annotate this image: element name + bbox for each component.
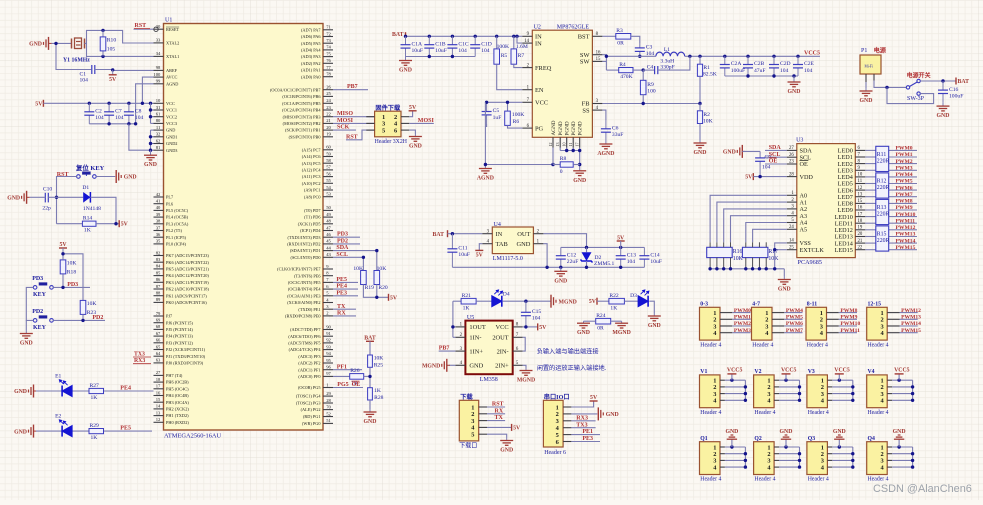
- svg-text:47: 47: [326, 225, 331, 230]
- svg-text:95: 95: [326, 358, 331, 363]
- svg-text:PL4 (OC5B): PL4 (OC5B): [166, 215, 189, 220]
- svg-text:GND: GND: [124, 175, 137, 181]
- U3 left pins: [787, 146, 825, 254]
- svg-text:104: 104: [95, 115, 104, 121]
- svg-text:MOSI: MOSI: [337, 118, 354, 124]
- ground GND (R2): [694, 140, 707, 156]
- wires V1 bus: [720, 379, 747, 402]
- resistor pack R11 220R: [876, 146, 890, 171]
- svg-text:5: 5: [471, 432, 474, 439]
- svg-text:(AD5) PA5: (AD5) PA5: [301, 41, 321, 46]
- power 5V (U4 TAB): [475, 244, 483, 259]
- svg-text:C1B: C1B: [435, 41, 446, 47]
- ground MGND (R24 right): [612, 321, 630, 336]
- svg-text:EXTCLK: EXTCLK: [800, 247, 825, 254]
- svg-text:61: 61: [156, 112, 161, 117]
- svg-text:PWM4: PWM4: [786, 308, 803, 314]
- svg-text:GND: GND: [780, 429, 793, 435]
- net label PG5 (U1 right): [333, 382, 363, 388]
- svg-text:D4: D4: [503, 292, 510, 298]
- power 5V (serial header): [571, 395, 598, 407]
- svg-text:LM358: LM358: [480, 377, 498, 383]
- svg-text:(A15) PC7: (A15) PC7: [302, 147, 322, 152]
- svg-text:LED15: LED15: [835, 247, 853, 254]
- svg-text:2IN+: 2IN+: [495, 363, 509, 370]
- svg-text:VCC3: VCC3: [166, 121, 177, 126]
- connector ISP header 3X2H: [366, 104, 409, 145]
- svg-text:PGND: PGND: [571, 121, 577, 135]
- svg-text:88: 88: [156, 291, 161, 296]
- switch SW-3P power switch: [906, 72, 930, 103]
- wire VCC1-VCC3 bus: [149, 103, 154, 123]
- svg-text:17: 17: [156, 384, 161, 389]
- svg-text:C1D: C1D: [481, 41, 492, 47]
- svg-text:TX3: TX3: [576, 422, 587, 428]
- net labels PWM0-PWM15: [896, 146, 916, 251]
- svg-text:20: 20: [326, 125, 331, 130]
- ground AGND (C6): [597, 141, 614, 157]
- svg-text:闲置的运放正输入端接地.: 闲置的运放正输入端接地.: [537, 364, 607, 372]
- svg-text:(AD3) PA3: (AD3) PA3: [301, 54, 321, 59]
- svg-text:(RXD0/PCIN8) PE0: (RXD0/PCIN8) PE0: [285, 314, 320, 319]
- svg-text:55: 55: [326, 178, 331, 183]
- svg-text:PWM8: PWM8: [896, 199, 913, 205]
- svg-text:(SCL/INT0) PD0: (SCL/INT0) PD0: [291, 255, 321, 260]
- svg-text:OE: OE: [352, 382, 361, 388]
- resistor R4 470K: [606, 62, 645, 80]
- svg-text:104: 104: [80, 78, 89, 84]
- power 5V (reset pullup): [119, 220, 128, 228]
- wire AGND to R8: [484, 163, 555, 166]
- svg-text:27: 27: [156, 370, 161, 375]
- LED E2: [55, 414, 72, 437]
- svg-text:VCC: VCC: [535, 100, 548, 107]
- wire VCC to 5V: [523, 325, 538, 328]
- svg-text:BAT: BAT: [364, 336, 376, 342]
- svg-text:18: 18: [156, 377, 161, 382]
- svg-text:52: 52: [326, 411, 331, 416]
- svg-text:OE: OE: [769, 159, 778, 165]
- wire output caps gnd rail: [725, 74, 798, 77]
- svg-text:R22: R22: [609, 293, 619, 299]
- svg-text:电源: 电源: [874, 47, 887, 55]
- svg-text:PWM0: PWM0: [734, 308, 751, 314]
- svg-text:10K: 10K: [374, 356, 384, 362]
- svg-text:(RXD1/INT2) PD2: (RXD1/INT2) PD2: [287, 242, 320, 247]
- svg-text:RX3: RX3: [576, 415, 588, 421]
- resistor R27 1K: [89, 383, 104, 401]
- capacitor C13 104: [616, 247, 637, 267]
- U2 right pins: [578, 32, 603, 114]
- svg-text:C4: C4: [647, 64, 654, 70]
- power ground MGND (U5 gnd pin): [422, 359, 455, 372]
- svg-text:GND: GND: [833, 429, 846, 435]
- svg-text:49: 49: [326, 212, 331, 217]
- svg-text:15: 15: [596, 57, 601, 62]
- wire E1 row: [36, 390, 154, 392]
- svg-text:PWM8: PWM8: [840, 308, 857, 314]
- U5 left pins: [455, 323, 485, 370]
- svg-text:(ADC2) PF2: (ADC2) PF2: [298, 361, 320, 366]
- svg-text:(A9) PC1: (A9) PC1: [304, 188, 321, 193]
- svg-text:(OC3C/INT5) PE5: (OC3C/INT5) PE5: [288, 280, 321, 285]
- svg-text:AVCC: AVCC: [166, 75, 178, 80]
- net label TX (download): [487, 415, 505, 421]
- LED D4: [492, 290, 510, 307]
- svg-text:OE: OE: [800, 161, 808, 168]
- power 5V (keys pullup): [59, 242, 67, 254]
- power 5V (D3): [589, 298, 597, 306]
- svg-text:SCK: SCK: [337, 125, 350, 131]
- svg-text:29: 29: [326, 391, 331, 396]
- net label RST (reset pin): [134, 23, 150, 29]
- svg-text:22p: 22p: [42, 206, 51, 212]
- svg-text:ATMEGA2560-16AU: ATMEGA2560-16AU: [164, 433, 222, 440]
- svg-text:VCC5: VCC5: [894, 368, 910, 374]
- wire D4 to MGND: [503, 300, 551, 303]
- svg-text:91: 91: [326, 331, 331, 336]
- power VCC5 (V2): [781, 368, 797, 381]
- svg-text:LM1117-5.0: LM1117-5.0: [493, 256, 523, 262]
- svg-text:XTAL2: XTAL2: [166, 41, 179, 46]
- svg-text:44: 44: [326, 245, 331, 250]
- wires Q1 bus: [720, 445, 747, 469]
- net label VCC5: [804, 50, 820, 56]
- svg-text:XTAL1: XTAL1: [166, 54, 179, 59]
- svg-text:GND: GND: [893, 429, 906, 435]
- net label PD2: [92, 315, 103, 321]
- svg-text:10K: 10K: [353, 266, 363, 272]
- wire VSS/EXTCLK to ground rail: [773, 243, 787, 269]
- svg-text:PD3: PD3: [337, 232, 348, 238]
- svg-text:Header 6: Header 6: [544, 450, 566, 456]
- svg-text:PWM5: PWM5: [786, 315, 803, 321]
- net label SDA (U3): [765, 145, 787, 151]
- capacitor C16 100uF: [938, 81, 963, 103]
- net label OE (U3): [765, 158, 787, 165]
- svg-text:(ADC5/TMS) PF5: (ADC5/TMS) PF5: [288, 341, 320, 346]
- net label TX3 (serial): [571, 422, 595, 428]
- svg-text:TX3: TX3: [134, 351, 145, 357]
- svg-text:28: 28: [326, 398, 331, 403]
- svg-text:37: 37: [156, 225, 161, 230]
- note text 2: [537, 364, 607, 372]
- wire AVCC net: [141, 77, 154, 105]
- svg-text:81: 81: [156, 145, 161, 150]
- svg-text:PL0 (ICP4): PL0 (ICP4): [166, 242, 187, 247]
- svg-text:100K: 100K: [512, 112, 524, 118]
- svg-text:25: 25: [326, 91, 331, 96]
- capacitor C9 104: [755, 151, 771, 176]
- svg-text:Header 4: Header 4: [807, 342, 828, 348]
- svg-text:GND: GND: [788, 89, 801, 95]
- resistor R18 10K: [60, 260, 76, 276]
- U2 left pins: [522, 32, 551, 132]
- svg-text:(A12) PC4: (A12) PC4: [302, 168, 322, 173]
- wire R5 to EN: [497, 64, 523, 90]
- svg-text:100: 100: [153, 72, 161, 77]
- wire PD3 key to R18: [53, 274, 90, 289]
- resistor R21 1K: [453, 293, 492, 312]
- svg-text:10K: 10K: [768, 256, 779, 262]
- wire OE gnd to C9: [742, 150, 760, 152]
- wire IN pin14 tie: [517, 36, 522, 43]
- wires Q3 bus: [827, 445, 854, 469]
- svg-text:5V: 5V: [121, 222, 129, 228]
- svg-text:R5: R5: [501, 53, 508, 59]
- svg-text:97: 97: [326, 371, 331, 376]
- connector V2 Header 4: [754, 369, 776, 416]
- svg-text:93: 93: [326, 344, 331, 349]
- svg-text:Header 4: Header 4: [808, 410, 829, 416]
- resistor pack R15 220R: [876, 226, 890, 251]
- wire BAT rail: [404, 35, 523, 38]
- svg-text:OUT: OUT: [517, 231, 530, 238]
- svg-text:PJ4 (PCINT13): PJ4 (PCINT13): [166, 334, 193, 339]
- svg-text:R7: R7: [518, 53, 525, 59]
- ground AGND (C5): [477, 167, 494, 182]
- svg-text:PL3 (OC5A): PL3 (OC5A): [166, 221, 189, 226]
- diode D1 1N4148: [57, 185, 117, 224]
- svg-text:SDA: SDA: [336, 245, 349, 251]
- resistor R7 1.6M: [511, 36, 528, 64]
- ground GND (P1): [860, 82, 873, 104]
- svg-text:D1: D1: [82, 185, 89, 191]
- svg-text:SS: SS: [582, 107, 590, 114]
- svg-text:58: 58: [326, 158, 331, 163]
- mcu U1 ATMEGA2560-16AU: [164, 18, 324, 440]
- svg-text:PWM11: PWM11: [840, 328, 860, 334]
- svg-text:AGND: AGND: [477, 176, 494, 182]
- svg-text:C5: C5: [493, 108, 500, 114]
- capacitor C2 104: [84, 103, 104, 124]
- svg-text:MGND: MGND: [422, 364, 440, 370]
- svg-text:(AD0) PA0: (AD0) PA0: [301, 74, 321, 79]
- power 5V (download): [487, 424, 521, 432]
- svg-text:104: 104: [481, 48, 490, 54]
- wires V3 bus: [827, 379, 854, 402]
- power GND (Q4): [893, 429, 906, 447]
- svg-text:100uF: 100uF: [949, 93, 963, 99]
- svg-text:5: 5: [382, 127, 385, 134]
- svg-text:PH4 (OC4B): PH4 (OC4B): [166, 393, 189, 398]
- svg-text:22: 22: [858, 245, 863, 250]
- net label SCL: [336, 252, 348, 258]
- svg-text:PH1 (TXD2): PH1 (TXD2): [166, 413, 189, 418]
- svg-text:R16: R16: [733, 249, 743, 255]
- svg-text:V4: V4: [868, 369, 875, 375]
- svg-text:R24: R24: [596, 313, 606, 319]
- svg-text:PWM12: PWM12: [896, 225, 916, 231]
- wires LED outputs to resistor packs: [865, 150, 917, 249]
- svg-text:Mi-Fi: Mi-Fi: [865, 65, 873, 69]
- wire SW node: [602, 55, 656, 71]
- capacitor C1 104: [80, 65, 113, 84]
- wire switch lower throw loop: [887, 87, 934, 103]
- svg-text:47uF: 47uF: [754, 68, 766, 74]
- wire VDD net: [753, 175, 787, 178]
- power VCC5 (V3): [834, 368, 850, 381]
- power 5V (I2C pullup): [389, 294, 398, 302]
- power 5V (U4 output): [617, 236, 625, 248]
- svg-text:PWM14: PWM14: [896, 238, 916, 244]
- capacitor C3 104: [635, 43, 655, 58]
- svg-text:PH3 (OC4A): PH3 (OC4A): [166, 400, 189, 405]
- net label RX (U1 right): [333, 311, 356, 317]
- svg-text:C1A: C1A: [412, 41, 423, 47]
- svg-text:26: 26: [326, 85, 331, 90]
- wire RESET net: [134, 27, 159, 31]
- svg-text:10: 10: [858, 173, 863, 178]
- svg-text:10uF: 10uF: [458, 252, 470, 258]
- push button KEY PD3: [32, 276, 53, 298]
- svg-text:330pF: 330pF: [660, 64, 674, 70]
- svg-text:SW-3P: SW-3P: [907, 96, 925, 102]
- wire button to RST/C10: [55, 177, 77, 224]
- svg-text:21: 21: [858, 239, 863, 244]
- svg-text:GND: GND: [14, 389, 27, 395]
- power BAT (switch): [956, 78, 969, 86]
- svg-text:CSDN @AlanChen6: CSDN @AlanChen6: [873, 483, 972, 495]
- svg-text:10uF: 10uF: [435, 48, 447, 54]
- svg-text:PK5 (ADC13/PCINT21): PK5 (ADC13/PCINT21): [166, 267, 209, 272]
- svg-text:100: 100: [647, 88, 656, 94]
- svg-text:Q2: Q2: [754, 436, 762, 442]
- svg-text:R20: R20: [378, 285, 388, 291]
- svg-text:PL5 (OC5C): PL5 (OC5C): [166, 208, 189, 213]
- wire D3 to GND: [649, 301, 654, 313]
- svg-text:59: 59: [326, 151, 331, 156]
- net label PB7 (U1): [333, 84, 368, 90]
- svg-text:57: 57: [326, 165, 331, 170]
- svg-text:(OC3A/AIN1) PE3: (OC3A/AIN1) PE3: [287, 293, 320, 298]
- U1 left pins with numbers and names: [153, 24, 209, 425]
- svg-text:5V: 5V: [109, 77, 117, 83]
- net label PE5: [120, 426, 131, 432]
- regulator U2 MP8762GLE: [532, 25, 592, 138]
- svg-text:(AD4) PA4: (AD4) PA4: [301, 48, 321, 53]
- svg-text:(OC1B/PCINT6) PB6: (OC1B/PCINT6) PB6: [282, 94, 321, 99]
- connector serial IO header 6: [543, 393, 571, 456]
- svg-text:PL2 (T5): PL2 (T5): [166, 228, 182, 233]
- svg-text:PH7 (T4): PH7 (T4): [166, 373, 183, 378]
- ground GND (mcu supply): [144, 150, 157, 168]
- svg-text:MOSI: MOSI: [418, 118, 435, 124]
- power GND (Q3): [833, 429, 846, 447]
- svg-text:(AD1) PA1: (AD1) PA1: [301, 68, 321, 73]
- svg-text:C12: C12: [567, 252, 577, 258]
- svg-text:67: 67: [156, 331, 161, 336]
- svg-text:10: 10: [156, 98, 161, 103]
- svg-text:(RD) PG1: (RD) PG1: [303, 414, 321, 419]
- svg-text:(A10) PC2: (A10) PC2: [302, 181, 321, 186]
- svg-text:GND: GND: [778, 287, 791, 293]
- U2 bottom pins AGND/PGND: [548, 120, 584, 147]
- wire AREF net: [111, 68, 154, 71]
- wire pullups to 5V: [363, 285, 388, 299]
- capacitor C2B 47uF: [743, 56, 766, 76]
- svg-text:D2: D2: [595, 255, 602, 261]
- svg-text:5V: 5V: [539, 325, 547, 331]
- svg-text:Header 4: Header 4: [808, 477, 829, 483]
- svg-text:64: 64: [156, 351, 161, 356]
- svg-text:MP8762GLE: MP8762GLE: [557, 25, 590, 31]
- resistor R28 1K: [368, 388, 384, 409]
- svg-text:GND: GND: [20, 341, 33, 347]
- svg-text:RST: RST: [346, 134, 358, 140]
- svg-text:(WR) PG0: (WR) PG0: [302, 421, 321, 426]
- svg-text:82: 82: [156, 250, 161, 255]
- svg-text:PH6 (OC2B): PH6 (OC2B): [166, 380, 189, 385]
- svg-text:38: 38: [156, 219, 161, 224]
- svg-text:12: 12: [858, 186, 863, 191]
- svg-text:R10: R10: [107, 37, 117, 43]
- svg-text:PJ6 (PCINT15): PJ6 (PCINT15): [166, 320, 193, 325]
- wires/net labels PWM12-PWM15: [887, 308, 921, 334]
- svg-text:90: 90: [326, 324, 331, 329]
- svg-text:PL1 (ICP5): PL1 (ICP5): [166, 235, 187, 240]
- svg-text:54: 54: [326, 185, 331, 190]
- svg-text:94: 94: [326, 351, 331, 356]
- svg-text:EN: EN: [535, 87, 544, 94]
- svg-text:GND: GND: [573, 178, 586, 184]
- capacitor C6 33uF: [601, 120, 624, 141]
- wire L1 output node: [685, 55, 820, 58]
- svg-text:C2: C2: [95, 109, 102, 115]
- svg-text:31: 31: [156, 105, 161, 110]
- svg-text:PWM9: PWM9: [896, 205, 913, 211]
- svg-text:负输入端与输出端连接: 负输入端与输出端连接: [537, 348, 599, 356]
- svg-text:(A13) PC5: (A13) PC5: [302, 161, 321, 166]
- svg-text:PH2 (XCK2): PH2 (XCK2): [166, 407, 189, 412]
- resistor pack R12 220R: [876, 173, 890, 198]
- svg-text:1K: 1K: [91, 435, 98, 441]
- U3 right pins LED0-LED15: [835, 146, 866, 254]
- LED D3: [630, 290, 649, 307]
- svg-text:AGND: AGND: [551, 120, 557, 135]
- svg-text:65: 65: [156, 344, 161, 349]
- svg-text:(XCK1) PD5: (XCK1) PD5: [298, 221, 321, 226]
- resistor R10 105: [100, 30, 116, 56]
- svg-text:(T0) PD7: (T0) PD7: [304, 208, 321, 213]
- wire GND pins bus: [149, 130, 154, 152]
- svg-text:Q1: Q1: [700, 436, 708, 442]
- wire 2IN+ to MGND: [523, 365, 526, 367]
- power 5V (VCC rail): [35, 100, 43, 108]
- svg-text:87: 87: [156, 284, 161, 289]
- wires A0-A5 address lines: [710, 195, 787, 242]
- svg-text:35: 35: [156, 239, 161, 244]
- svg-text:5V: 5V: [59, 242, 67, 248]
- net label PE1 (serial): [571, 429, 600, 435]
- net label PB7 (U5): [439, 346, 456, 352]
- svg-text:GND: GND: [469, 363, 483, 370]
- net label PF1 (U1 right): [333, 364, 362, 370]
- wire 5V output top rail: [561, 246, 645, 249]
- capacitor C12 22uF: [556, 247, 579, 267]
- svg-text:104: 104: [458, 48, 467, 54]
- svg-text:GND: GND: [723, 150, 736, 156]
- svg-text:PWM6: PWM6: [786, 321, 803, 327]
- svg-text:PE3: PE3: [336, 290, 347, 296]
- svg-text:12: 12: [156, 417, 161, 422]
- wire crystal gnd node: [52, 42, 92, 70]
- svg-text:83: 83: [156, 257, 161, 262]
- wire E2 row: [36, 430, 152, 432]
- svg-text:SCL: SCL: [769, 152, 781, 158]
- svg-text:C2E: C2E: [804, 61, 815, 67]
- svg-text:VCC5: VCC5: [781, 368, 797, 374]
